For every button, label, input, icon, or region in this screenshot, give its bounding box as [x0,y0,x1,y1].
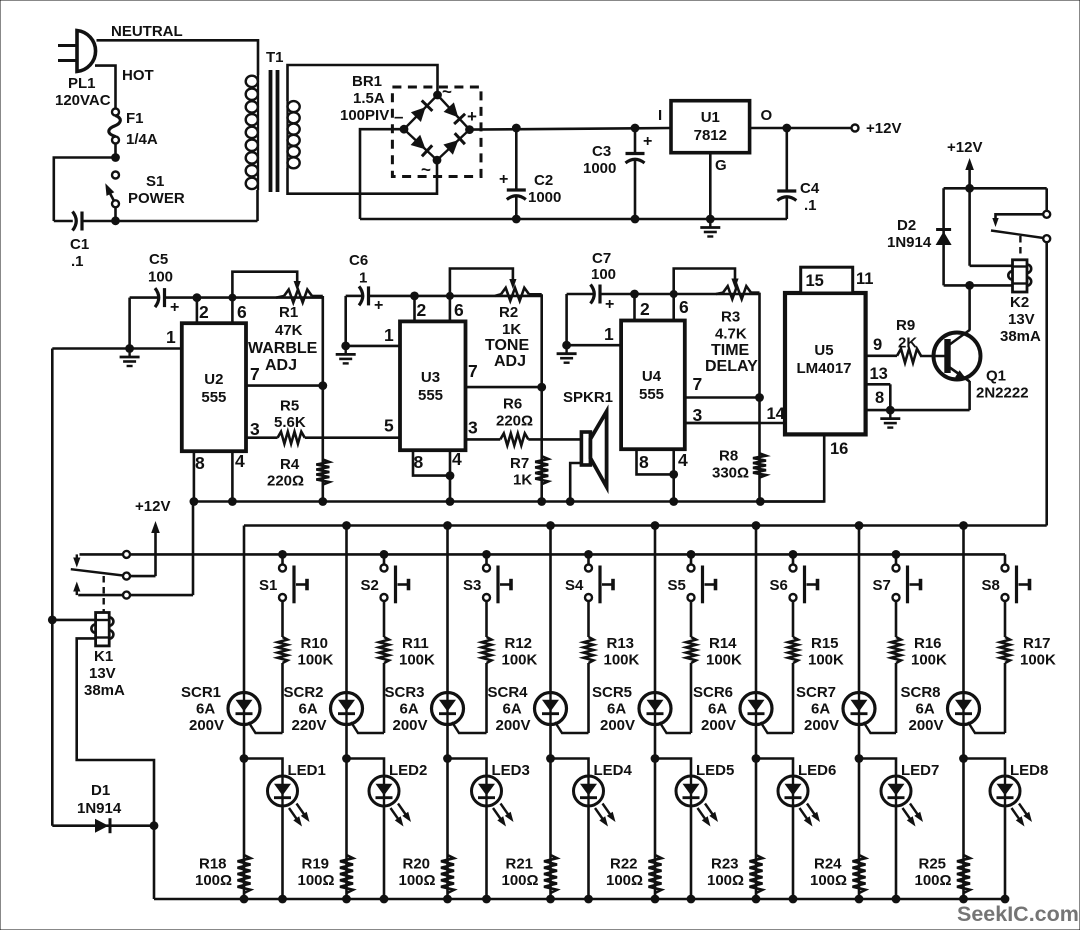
svg-text:6A: 6A [916,701,935,718]
svg-text:R5: R5 [280,398,299,415]
wire +12V arrow [965,158,974,188]
node col8 bottom A [959,895,968,904]
U5 top tab [801,267,853,293]
label R15 value [808,652,844,669]
label C2 value [528,189,561,206]
label R13 [607,635,635,652]
label NEUTRAL [111,23,183,40]
svg-text:5: 5 [384,416,394,436]
wire S8 stub [1004,554,1007,564]
ground below pin8 [880,410,900,428]
svg-text:K1: K1 [94,648,113,665]
label Q1 [986,368,1006,385]
svg-text:1N914: 1N914 [77,800,122,817]
label pin G [715,157,727,174]
label LED1 [288,762,326,779]
resistor R6 220 [466,433,582,445]
node LED8 bottom [1001,895,1010,904]
svg-text:+12V: +12V [135,498,170,515]
svg-text:2: 2 [417,300,427,320]
svg-text:7: 7 [250,364,260,384]
svg-text:200V: 200V [909,717,944,734]
LED4 [574,776,616,899]
label C3 value [583,160,616,177]
svg-text:LED2: LED2 [389,762,427,779]
SCR5 [639,693,691,734]
wire SCR6 vertical [755,526,758,900]
svg-text:1000: 1000 [528,189,561,206]
svg-text:100K: 100K [706,652,742,669]
label LED2 [389,762,427,779]
label TIME [711,342,750,359]
label U4 pin1 [604,324,614,344]
label R21 [506,856,534,873]
label C6 plus [374,297,383,314]
node U3 pin6 [446,292,454,300]
terminal +12V output [852,125,859,132]
svg-text:38mA: 38mA [84,682,125,699]
label SCR5 6A [607,701,626,718]
svg-text:S3: S3 [463,577,481,594]
wire R2 right vertical [540,294,543,501]
label U3 pin6 [454,300,464,320]
wire C7 left down [565,294,568,345]
resistor R19 100 [340,855,353,893]
label SCR5 [592,684,632,701]
svg-text:1K: 1K [502,321,521,338]
label R11 value [399,652,435,669]
node LED7 bottom [892,895,901,904]
label R15 [811,635,839,652]
node S3 row1 [482,550,491,559]
relay K1 coil [91,613,113,646]
svg-text:WARBLE: WARBLE [248,340,318,357]
label U3 [421,369,440,386]
label S4 [565,577,584,594]
wire S2 stub [383,554,386,564]
svg-text:S6: S6 [770,577,788,594]
label R22 value [606,872,643,889]
wire U2 pin7 [246,384,323,387]
label R25 value [915,872,952,889]
svg-text:C6: C6 [349,252,368,269]
label R4 220 [267,473,304,490]
wire SCR8 vertical [962,526,965,900]
svg-text:LM4017: LM4017 [796,360,851,377]
capacitor C5 [130,288,165,307]
svg-text:100K: 100K [604,652,640,669]
label U3 pin7 [468,361,478,381]
LED3 [472,776,514,899]
node LED2 bottom [380,895,389,904]
svg-text:D2: D2 [897,217,916,234]
LED6 [778,776,820,899]
label pin 9 [873,336,882,354]
resistor R8 330 [753,453,766,477]
resistor R21 100 [544,855,557,893]
svg-text:4: 4 [452,449,462,469]
svg-text:38mA: 38mA [1000,328,1041,345]
svg-text:D1: D1 [91,782,110,799]
bridge diamond wires [404,95,470,160]
label R7 1K [513,472,532,489]
label U4 pin6 [679,297,689,317]
label SCR6 V [701,717,736,734]
label R24 [814,856,842,873]
label pin I [658,107,662,124]
svg-text:100Ω: 100Ω [298,872,335,889]
svg-text:SCR7: SCR7 [796,684,836,701]
wire bridge left out [360,129,404,219]
label U4 pin4 [678,450,688,470]
relay K2 pivot [992,214,1043,227]
node U3 pin8-4 junction [446,471,455,480]
wire bridge right out [470,128,672,130]
wire U4 top [600,293,760,296]
svg-text:R13: R13 [607,635,635,652]
svg-text:U3: U3 [421,369,440,386]
svg-text:200V: 200V [189,717,224,734]
svg-text:555: 555 [201,389,226,406]
relay K1 contact a [123,551,130,558]
node bridge top [433,91,442,100]
wire +12V mid arrow [151,521,160,576]
switch S2 [381,565,409,604]
svg-text:SCR4: SCR4 [488,684,529,701]
wire D1 to bottom rail [153,826,156,899]
SCR3 [432,693,487,734]
wire secondary top [288,65,438,101]
wire U2 top [165,296,323,299]
wire main vertical right [968,188,971,265]
svg-text:O: O [761,107,773,124]
svg-text:200V: 200V [701,717,736,734]
wire U4 pin3 to U5 pin14 [685,422,760,425]
label U2 pin3 [250,419,260,439]
label S8 [982,577,1000,594]
label S7 [873,577,891,594]
label R6 [503,396,522,413]
wire S5 to R [690,601,693,637]
svg-text:R8: R8 [719,448,738,465]
svg-text:6: 6 [454,300,464,320]
label R10 value [298,652,334,669]
label C3 [592,143,611,160]
svg-text:HOT: HOT [122,67,154,84]
label SCR5 V [600,717,635,734]
svg-text:+: + [605,296,614,313]
svg-text:13: 13 [870,365,888,383]
wire U3 pin8 lead [413,450,450,475]
wire F1 to junction [114,144,117,158]
label +12V output [866,120,901,137]
bridge diode D-d [443,133,465,155]
svg-text:220V: 220V [292,717,327,734]
svg-text:G: G [715,157,727,174]
wire rail1 to relay [192,502,195,596]
svg-text:C7: C7 [592,250,611,267]
node bridge bottom [433,156,442,165]
svg-text:6: 6 [679,297,689,317]
potentiometer R3 4.7K [716,286,760,299]
node col6 bottom A [752,895,761,904]
svg-text:C4: C4 [800,180,820,197]
label PL1 [68,75,96,92]
svg-text:R25: R25 [919,856,947,873]
svg-text:+: + [643,133,652,150]
wire speaker bottom [570,463,581,502]
svg-text:U1: U1 [701,109,720,126]
node U2 pin2 [193,293,202,302]
svg-text:+: + [374,297,383,314]
label C1 [70,236,89,253]
resistor R9 2K [866,349,921,363]
node SCR5 rail2 [651,521,660,530]
node U2 pin7 junction [318,381,327,390]
svg-text:+12V: +12V [866,120,901,137]
label R19 [302,856,330,873]
label R10 [301,635,329,652]
label LED7 [901,762,939,779]
wire LED3 link [448,759,487,777]
svg-text:100: 100 [148,269,173,286]
svg-text:1: 1 [604,324,614,344]
node U3 pin7 junction [537,383,546,392]
svg-text:S1: S1 [146,173,164,190]
label 120VAC [55,92,111,109]
label +12V top right [947,139,982,156]
svg-text:LED6: LED6 [798,762,836,779]
label R9 [896,317,915,334]
svg-text:100Ω: 100Ω [399,872,436,889]
switch S1 POWER [105,172,119,208]
label S2 [361,577,379,594]
node speaker rail [566,497,575,506]
transformer T1 primary coil [246,75,258,190]
node C2 bottom [512,215,521,224]
svg-text:R19: R19 [302,856,330,873]
svg-text:C2: C2 [534,172,553,189]
capacitor C4 [777,128,796,219]
svg-text:U4: U4 [642,368,662,385]
svg-text:6A: 6A [503,701,522,718]
transistor Q1 2N2222 [920,330,981,382]
wire to K2 contact [1045,188,1048,211]
label U4 [642,368,662,385]
label ~ top [442,82,452,101]
label SCR8 6A [916,701,935,718]
resistor R11 100K [379,637,389,663]
wire 555 bottom rail [193,500,824,503]
wire LED2 link [347,759,385,777]
resistor R18 100 [238,855,251,893]
label R16 value [911,652,947,669]
node U4 pin7 junction [755,393,764,402]
node C3 top [631,124,640,133]
switch S7 [893,565,921,604]
wire U2 pin8 lead [193,451,196,501]
node U4 pin8-4 junction [669,470,678,479]
node U4 pin2 [630,290,639,299]
wire LED6 link [756,759,793,777]
label U2 555 [201,389,226,406]
label SCR7 [796,684,836,701]
resistor R13 100K [584,637,594,663]
label R17 value [1020,652,1056,669]
label C6 [349,252,368,269]
ground U4 pin1 [557,345,577,363]
node R4 rail [318,497,327,506]
wire R3 right vertical [758,293,761,502]
potentiometer R2 wiper [450,269,517,296]
svg-text:6A: 6A [708,701,727,718]
node C2 top [512,124,521,133]
wire U4 pin8 lead [637,449,674,474]
svg-text:13V: 13V [1008,311,1035,328]
svg-text:S4: S4 [565,577,584,594]
label R5 [280,398,299,415]
label pin 15 [806,272,824,290]
relay K1 armature [71,569,123,575]
node LED3 junction [443,754,452,763]
svg-text:K2: K2 [1010,294,1029,311]
label S3 [463,577,481,594]
node col4 bottom A [546,895,555,904]
wire S2 to R [383,601,386,637]
wire S7 stub [895,554,898,564]
label C7 plus [605,296,614,313]
label SCR8 [901,684,941,701]
svg-text:LED1: LED1 [288,762,326,779]
capacitor C3 [626,128,645,219]
wire S4 to R [587,601,590,637]
svg-text:.1: .1 [71,253,84,270]
switch S1 [279,565,307,604]
svg-text:1: 1 [359,270,367,287]
node LED5 junction [651,754,660,763]
bridge diode D-b [444,102,466,124]
capacitor C1 [54,212,82,231]
node coil return junction [965,281,974,290]
label - left [394,107,403,126]
svg-text:8: 8 [414,452,424,472]
SCR6 [740,693,793,734]
wire U3 pin7 [466,386,542,389]
svg-text:100K: 100K [399,652,435,669]
node U1 gnd junction [706,215,715,224]
potentiometer R2 1K [495,288,542,301]
wire C6 left down [344,296,347,346]
svg-text:7: 7 [468,361,478,381]
svg-text:SCR6: SCR6 [693,684,733,701]
label LED5 [696,762,734,779]
svg-text:6A: 6A [811,701,830,718]
label SCR3 V [393,717,428,734]
wire U2 pin1 [52,347,182,350]
label +12V mid [135,498,170,515]
node S2 row1 [380,550,389,559]
svg-text:R3: R3 [721,309,740,326]
svg-text:R24: R24 [814,856,842,873]
LED8 [990,776,1032,899]
svg-text:11: 11 [856,270,873,288]
relay K1 contact b [123,573,130,580]
svg-text:7812: 7812 [694,127,727,144]
label R8 [719,448,738,465]
svg-text:220Ω: 220Ω [496,413,533,430]
ground U2 pin1 [120,349,140,367]
node LED1 junction [240,754,249,763]
svg-text:SCR1: SCR1 [181,684,221,701]
node LED6 bottom [789,895,798,904]
resistor R14 100K [686,637,696,663]
wire U3 pin2 lead [413,296,416,322]
label U2 pin6 [237,302,247,322]
svg-text:U5: U5 [814,342,833,359]
label 7812 [694,127,727,144]
node LED7 junction [855,754,864,763]
svg-text:6A: 6A [299,701,318,718]
IC U4 555 box [621,321,685,450]
svg-text:2N2222: 2N2222 [976,385,1029,402]
label R4 [280,456,300,473]
wire U3 pin4 lead [449,450,452,501]
label C5 value [148,269,173,286]
wire K1 coil return [77,638,154,825]
wire SCR4 vertical [549,526,552,900]
SCR4 [535,693,589,734]
node LED5 bottom [687,895,696,904]
label pin 11 [856,270,873,288]
wire U3 pin1 [346,345,400,348]
node U4 pin6 [670,290,678,298]
node U4 pin4 rail [669,497,678,506]
svg-text:100K: 100K [502,652,538,669]
svg-text:1.5A: 1.5A [353,90,385,107]
svg-text:R7: R7 [510,455,529,472]
label pin 14 [767,405,786,423]
label Q1 2N2222 [976,385,1029,402]
wire Q1 emitter [968,381,971,410]
node LED3 bottom [482,895,491,904]
wire junction to left [54,158,116,222]
label U3 pin1 [384,325,394,345]
node F1-S1 junction [111,153,120,162]
svg-text:6A: 6A [607,701,626,718]
label HOT [122,67,154,84]
label SCR2 V [292,717,327,734]
node U4 pin1 junction [562,341,571,350]
wire S4 stub [587,554,590,564]
wire U5 pin 14 [685,422,785,425]
label SCR4 [488,684,529,701]
label SCR8 V [909,717,944,734]
svg-text:100Ω: 100Ω [707,872,744,889]
label R23 value [707,872,744,889]
label SCR2 6A [299,701,318,718]
resistor R25 100 [957,855,970,893]
resistor R17 100K [1000,637,1010,663]
label SCR6 6A [708,701,727,718]
svg-text:R17: R17 [1023,635,1051,652]
label K1 38mA [84,682,125,699]
wire relay row1 [130,553,1005,556]
wire U4 pin4 lead [672,449,675,501]
label pin 13 [870,365,888,383]
svg-text:R6: R6 [503,396,522,413]
node D1 junction [150,821,159,830]
wire LED5 link [655,759,691,777]
